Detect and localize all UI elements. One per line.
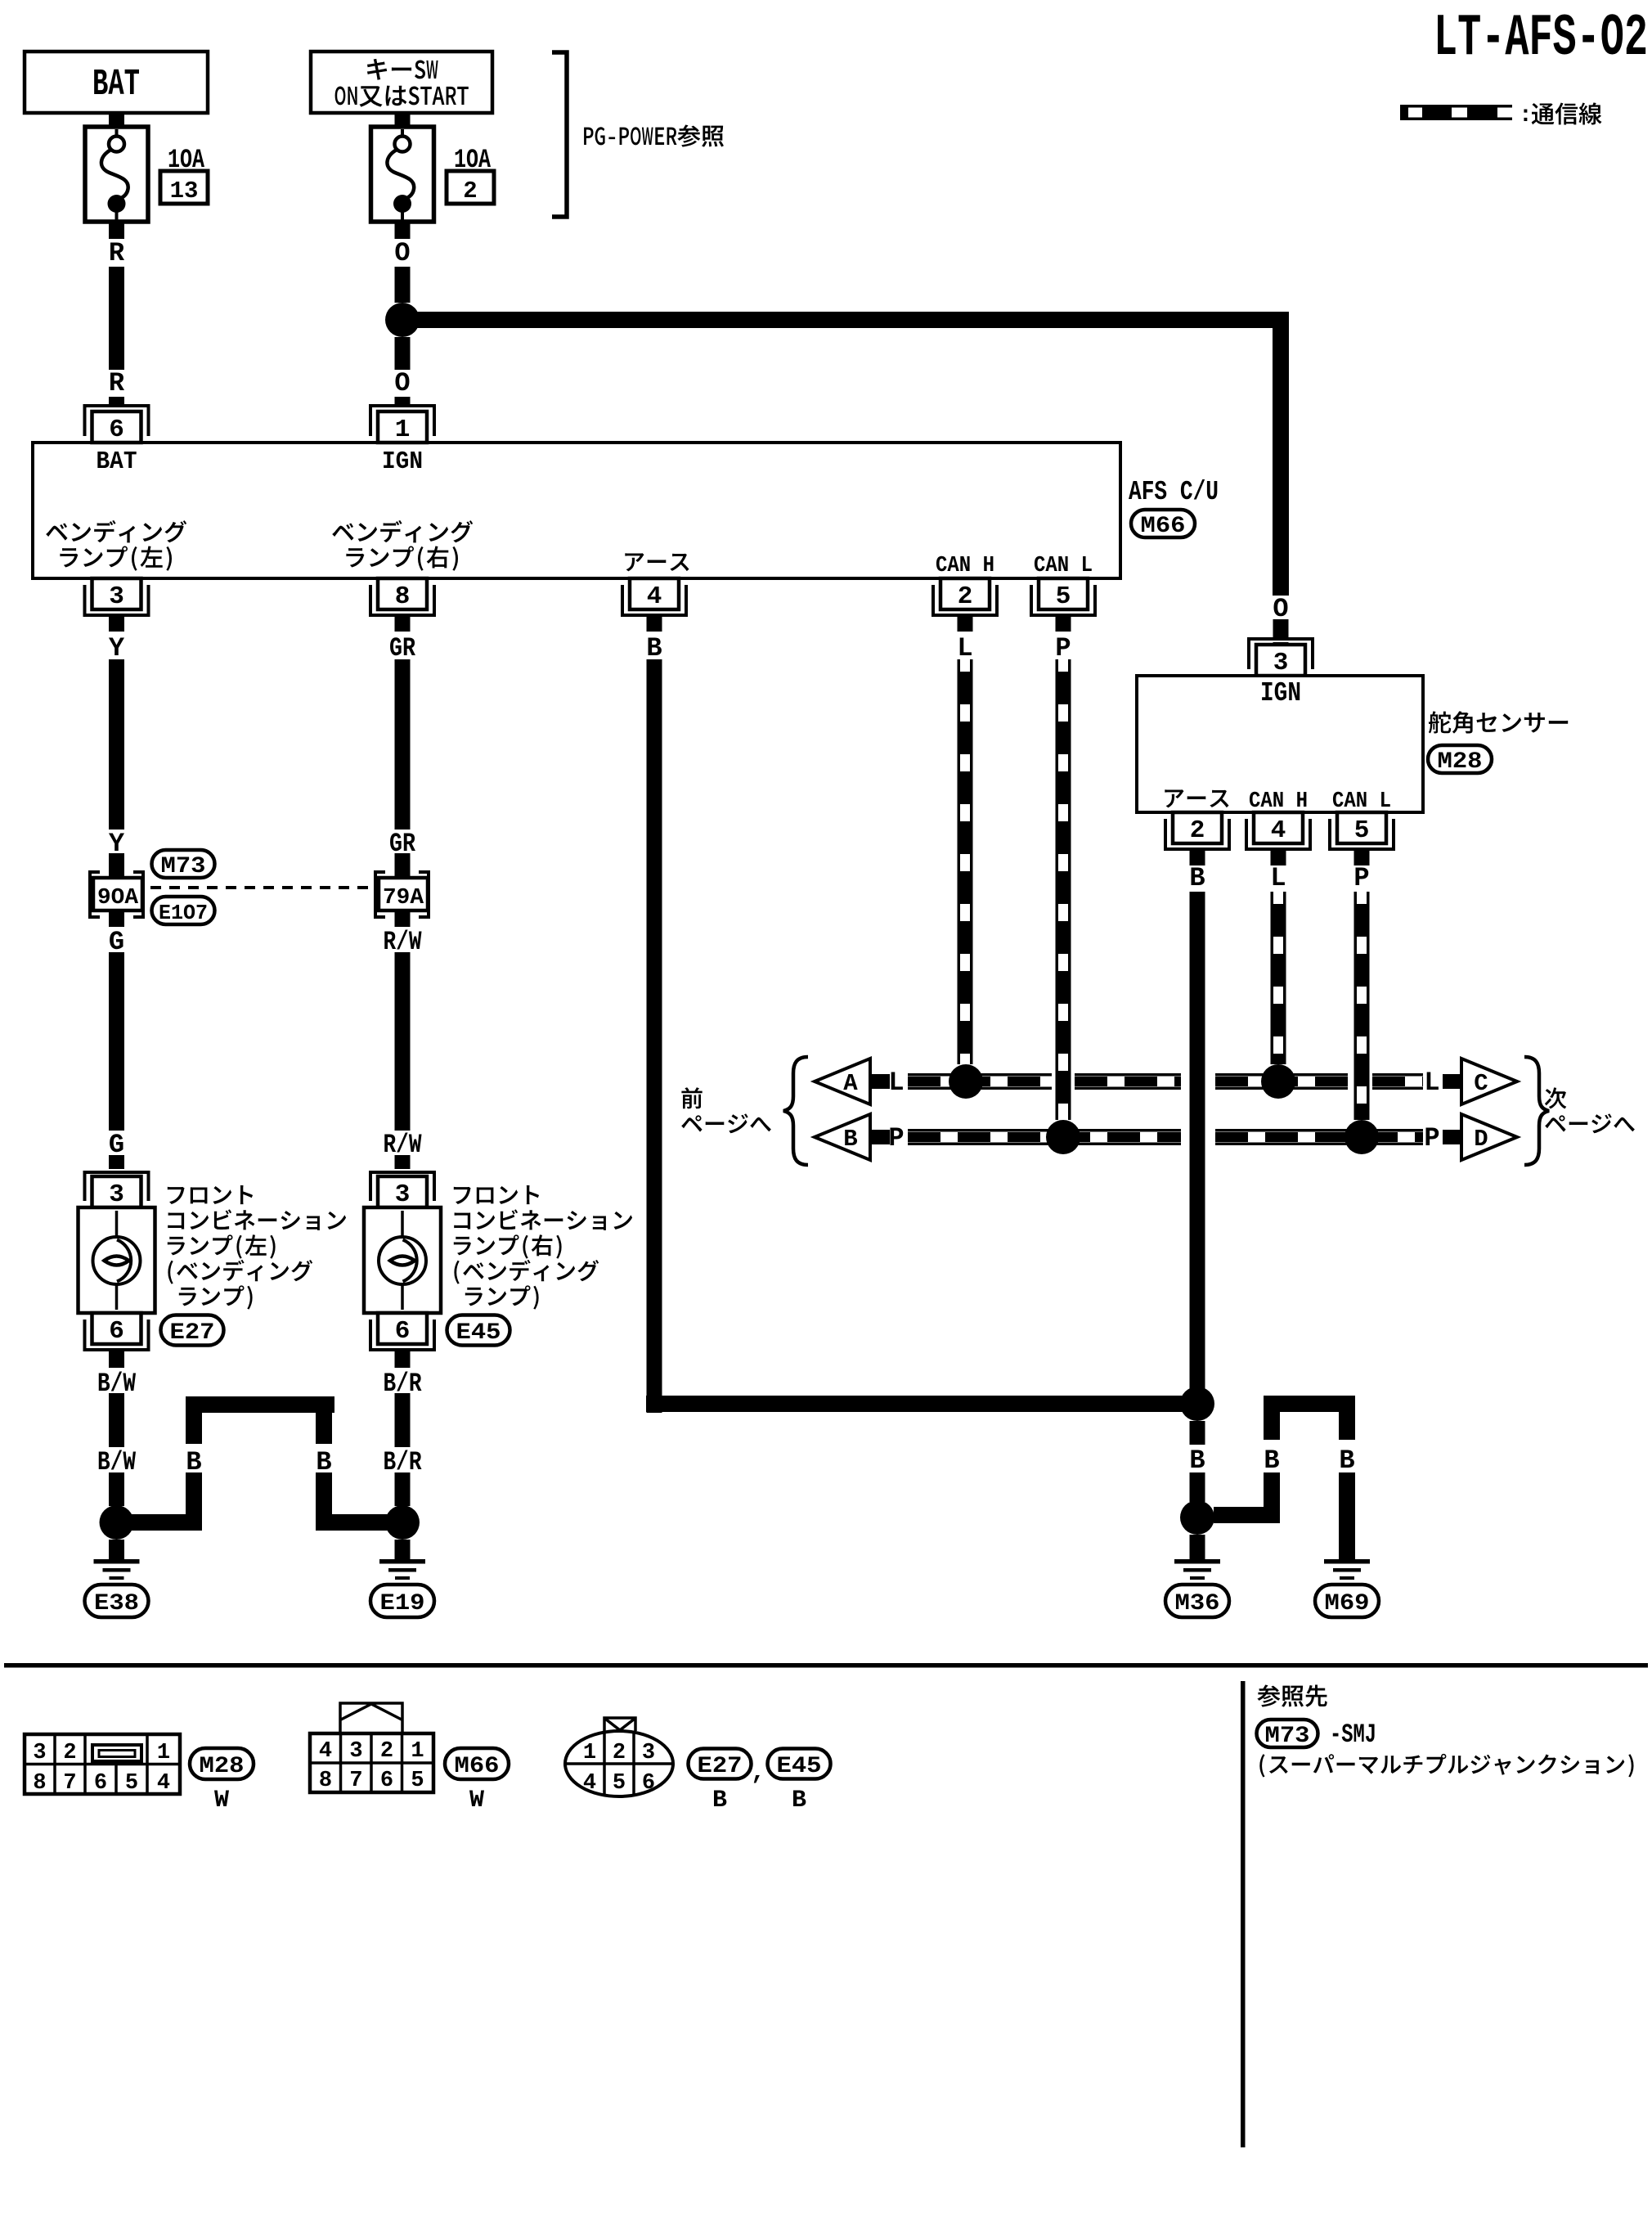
svg-text:AFS C/U: AFS C/U	[1129, 477, 1219, 507]
svg-text:L: L	[1270, 863, 1286, 893]
svg-text:5: 5	[613, 1771, 626, 1796]
svg-text:BAT: BAT	[92, 64, 140, 106]
svg-text:Y: Y	[109, 633, 125, 663]
svg-text:M28: M28	[1438, 749, 1483, 775]
svg-text:CAN L: CAN L	[1034, 554, 1093, 578]
svg-text:M66: M66	[1141, 514, 1186, 539]
svg-text:6: 6	[109, 416, 124, 444]
svg-text:4: 4	[1271, 816, 1286, 845]
svg-text:B: B	[843, 1126, 857, 1153]
svg-text:B: B	[712, 1787, 727, 1814]
svg-text:L: L	[888, 1068, 904, 1098]
svg-text:M73: M73	[1265, 1724, 1310, 1749]
svg-text:W: W	[469, 1787, 484, 1814]
svg-text:6: 6	[109, 1317, 124, 1346]
svg-text:P: P	[888, 1123, 904, 1153]
svg-text:CAN H: CAN H	[936, 554, 994, 578]
svg-text:1: 1	[395, 416, 411, 444]
svg-text:5: 5	[1354, 816, 1370, 845]
svg-text:3: 3	[349, 1739, 362, 1764]
svg-text:2: 2	[380, 1739, 393, 1764]
svg-text:5: 5	[1056, 582, 1071, 611]
svg-text:O: O	[394, 368, 410, 398]
svg-text:R: R	[109, 238, 125, 268]
svg-text:IGN: IGN	[1260, 678, 1301, 708]
svg-text:CAN L: CAN L	[1332, 789, 1391, 814]
svg-text:E19: E19	[380, 1591, 425, 1616]
svg-text:6: 6	[94, 1771, 107, 1796]
svg-text:5: 5	[411, 1769, 424, 1793]
svg-text:C: C	[1474, 1070, 1488, 1097]
svg-text:6: 6	[395, 1317, 411, 1346]
svg-text:B: B	[1189, 863, 1205, 893]
svg-text:L: L	[957, 633, 972, 663]
svg-text:13: 13	[170, 178, 199, 205]
svg-text:B: B	[792, 1787, 806, 1814]
svg-text:E45: E45	[777, 1754, 822, 1779]
svg-text:D: D	[1474, 1126, 1488, 1153]
svg-text:3: 3	[1273, 649, 1289, 677]
svg-text:3: 3	[33, 1741, 46, 1765]
svg-text:1: 1	[583, 1741, 596, 1765]
svg-text:O: O	[394, 238, 410, 268]
svg-text:3: 3	[109, 1180, 124, 1209]
svg-text:-SMJ: -SMJ	[1330, 1720, 1376, 1750]
svg-text:2: 2	[1190, 816, 1205, 845]
svg-text:7: 7	[349, 1769, 362, 1793]
svg-text:M66: M66	[455, 1754, 500, 1779]
svg-text:7: 7	[63, 1771, 76, 1796]
svg-text:E27: E27	[698, 1754, 743, 1779]
svg-text:2: 2	[613, 1741, 626, 1765]
svg-text:4: 4	[583, 1771, 596, 1796]
svg-text:M28: M28	[200, 1754, 245, 1779]
svg-text:1: 1	[157, 1741, 170, 1765]
svg-text:6: 6	[642, 1771, 655, 1796]
svg-text:BAT: BAT	[97, 447, 137, 476]
svg-text:8: 8	[319, 1769, 332, 1793]
svg-text:3: 3	[109, 582, 124, 611]
svg-text:4: 4	[319, 1739, 332, 1764]
svg-text:M36: M36	[1175, 1591, 1220, 1616]
svg-text:L: L	[1424, 1068, 1439, 1098]
svg-text:9OA: 9OA	[97, 886, 139, 910]
svg-text:6: 6	[380, 1769, 393, 1793]
svg-text:2: 2	[958, 582, 973, 611]
svg-text:B: B	[1264, 1445, 1279, 1476]
svg-text:R: R	[109, 368, 125, 398]
svg-text:2: 2	[463, 178, 477, 205]
svg-text:2: 2	[63, 1741, 76, 1765]
svg-text:E27: E27	[170, 1320, 215, 1346]
svg-text:E1O7: E1O7	[159, 901, 208, 925]
svg-text:3: 3	[642, 1741, 655, 1765]
svg-text:IGN: IGN	[382, 447, 423, 476]
svg-text:B: B	[646, 633, 662, 663]
svg-text:4: 4	[647, 582, 662, 611]
svg-text:E38: E38	[94, 1591, 139, 1616]
svg-text:W: W	[214, 1787, 229, 1814]
svg-text:P: P	[1353, 863, 1369, 893]
svg-text:3: 3	[395, 1180, 411, 1209]
svg-text:E45: E45	[456, 1320, 501, 1346]
svg-text:P: P	[1424, 1123, 1439, 1153]
svg-text:B: B	[1189, 1445, 1205, 1476]
svg-text:B: B	[1339, 1445, 1354, 1476]
svg-text:M69: M69	[1325, 1591, 1370, 1616]
svg-text:M73: M73	[161, 854, 206, 879]
svg-text:LT-AFS-O2: LT-AFS-O2	[1434, 5, 1648, 72]
svg-text::: :	[1519, 103, 1533, 128]
svg-text:P: P	[1055, 633, 1071, 663]
svg-text:5: 5	[125, 1771, 138, 1796]
svg-text:,: ,	[751, 1759, 765, 1787]
svg-text:A: A	[843, 1070, 858, 1097]
svg-text:4: 4	[157, 1771, 170, 1796]
svg-text:8: 8	[395, 582, 411, 611]
svg-text:8: 8	[33, 1771, 46, 1796]
svg-text:1: 1	[411, 1739, 424, 1764]
svg-text:GR: GR	[389, 633, 416, 663]
svg-text:79A: 79A	[383, 886, 424, 910]
svg-text:CAN H: CAN H	[1249, 789, 1308, 814]
